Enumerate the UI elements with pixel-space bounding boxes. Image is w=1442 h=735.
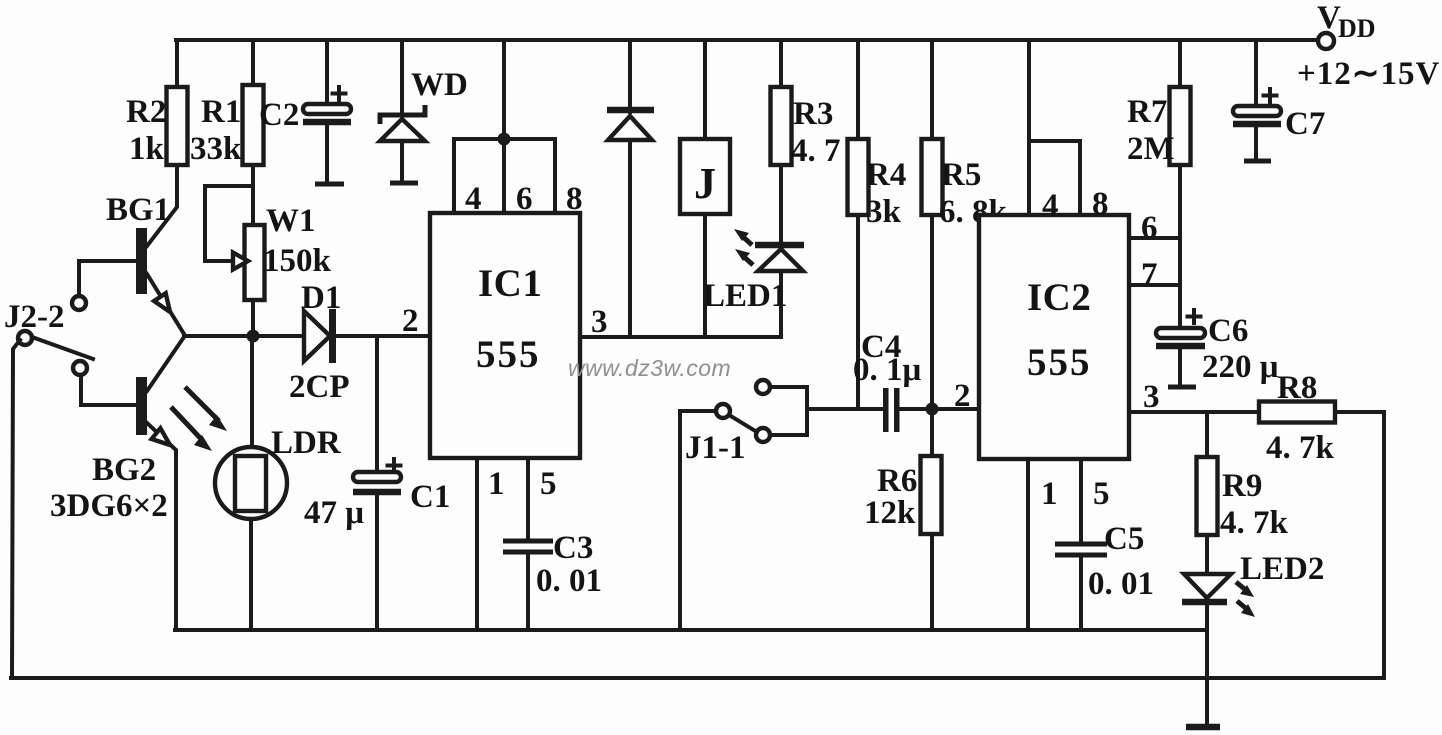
svg-text:J: J — [694, 159, 716, 208]
resistor R6 — [864, 409, 942, 630]
wire: J2-2 lower throw to BG2 base — [81, 375, 136, 405]
svg-text:WD: WD — [411, 67, 468, 103]
svg-text:R6: R6 — [877, 463, 917, 499]
wire: BG1 emitter / BG2 collector node to IC1 pin2 trigger line — [184, 334, 303, 338]
wire: IC2 pin 6 to R7/C6 bus — [1129, 236, 1180, 240]
svg-text:220 μ: 220 μ — [1202, 349, 1279, 385]
resistor R7 — [1127, 40, 1191, 328]
svg-text:C2: C2 — [259, 97, 299, 133]
svg-text:R1: R1 — [201, 94, 241, 130]
svg-text:C5: C5 — [1104, 521, 1144, 557]
svg-text:4: 4 — [465, 181, 482, 217]
wire: IC2 pin 3 output line — [1129, 410, 1259, 414]
svg-text:IC2: IC2 — [1027, 276, 1091, 319]
wire: VDD top supply rail — [176, 38, 1318, 42]
svg-text:2CP: 2CP — [289, 369, 350, 405]
svg-text:R4: R4 — [866, 157, 906, 193]
svg-text:4. 7k: 4. 7k — [1220, 505, 1289, 541]
wire: IC1 pin 3 output line — [580, 335, 781, 339]
svg-text:33k: 33k — [190, 131, 242, 167]
svg-text:R5: R5 — [941, 157, 981, 193]
node VDD terminal — [1318, 33, 1334, 49]
svg-text:2M: 2M — [1127, 131, 1175, 167]
wire: LED2 cathode to ground — [1205, 602, 1209, 727]
photoresistor LDR — [215, 336, 342, 630]
junction dot on IC1 pin 4/6/8 bus — [498, 133, 511, 146]
svg-text:J1-1: J1-1 — [685, 430, 746, 466]
svg-text:3: 3 — [1143, 379, 1160, 415]
svg-text:BG2: BG2 — [92, 452, 156, 488]
svg-text:0. 1μ: 0. 1μ — [853, 352, 922, 388]
svg-text:555: 555 — [1027, 341, 1092, 384]
svg-text:150k: 150k — [263, 243, 332, 279]
svg-text:IC1: IC1 — [478, 262, 542, 305]
svg-text:R3: R3 — [793, 96, 833, 132]
diode D1 — [289, 280, 430, 405]
svg-text:C6: C6 — [1208, 313, 1248, 349]
IC U1: 555 timer IC1 — [430, 213, 580, 458]
junction dot: W1/LDR tap on trigger line — [247, 330, 260, 343]
resistor R2 — [126, 40, 188, 167]
svg-text:4: 4 — [1042, 188, 1059, 224]
svg-text:0. 01: 0. 01 — [536, 563, 602, 599]
svg-text:5: 5 — [1093, 476, 1110, 512]
svg-text:R8: R8 — [1277, 370, 1317, 406]
svg-text:8: 8 — [566, 181, 583, 217]
svg-text:12k: 12k — [864, 495, 916, 531]
wire: J1-1 pole to internal ground rail — [678, 411, 682, 630]
svg-text:DD: DD — [1338, 14, 1376, 43]
wire: internal ground rail — [175, 628, 1207, 632]
transistor BG2 — [50, 337, 184, 630]
wire: J2-2 pole down left edge to bottom rail — [12, 340, 20, 677]
svg-text:47 μ: 47 μ — [304, 495, 364, 531]
wire: IC2 pin 4/8 bus — [1029, 141, 1080, 215]
wire: top rail drop to IC2 pins 4/8 — [1027, 40, 1031, 215]
wire: top rail drop to IC1 pins 4/6/8 — [502, 40, 506, 139]
svg-text:2: 2 — [402, 303, 419, 339]
transistor BG1 — [106, 165, 184, 334]
capacitor C2 (electrolytic) — [259, 40, 351, 184]
wire: IC1 pin 1 to ground rail — [475, 458, 479, 630]
svg-text:C7: C7 — [1285, 106, 1325, 142]
svg-text:R7: R7 — [1127, 94, 1167, 130]
wire: BG1 base to J2-2 — [79, 261, 136, 296]
LED LED1 — [703, 229, 804, 337]
svg-text:4. 7: 4. 7 — [791, 133, 841, 169]
switch J2-2 — [4, 296, 93, 375]
resistor R4 — [848, 40, 907, 409]
IC U2: 555 timer IC2 — [979, 215, 1129, 459]
svg-text:+12∼15V: +12∼15V — [1297, 56, 1440, 92]
capacitor C3 on IC1 pin 5 — [503, 458, 602, 630]
resistor R9 — [1197, 412, 1289, 574]
svg-text:C3: C3 — [553, 530, 593, 566]
svg-text:5: 5 — [540, 466, 557, 502]
svg-text:3: 3 — [591, 304, 608, 340]
capacitor C4 — [853, 329, 979, 432]
capacitor C6 (electrolytic) — [1156, 310, 1279, 387]
svg-text:6: 6 — [516, 181, 533, 217]
wire: outer bottom return rail — [11, 676, 1384, 680]
svg-text:2: 2 — [954, 378, 971, 414]
resistor R1 — [190, 40, 264, 167]
svg-text:LED1: LED1 — [703, 278, 787, 314]
svg-text:555: 555 — [476, 333, 541, 376]
wire: IC1 pin 4/6/8 bus — [454, 139, 555, 213]
switch J1-1 — [680, 380, 807, 466]
junction dot: R5/R6/C4 node — [926, 403, 939, 416]
resistor R3 — [771, 40, 841, 242]
svg-text:1k: 1k — [129, 131, 165, 167]
wire: IC2 pin 1 to ground rail — [1026, 459, 1030, 630]
relay coil J — [680, 40, 730, 337]
svg-text:D1: D1 — [301, 280, 341, 316]
svg-text:7: 7 — [1141, 257, 1158, 293]
svg-text:1: 1 — [488, 466, 505, 502]
wire: IC2 pin 7 to R7/C6 bus — [1129, 283, 1180, 287]
svg-text:6: 6 — [1141, 210, 1158, 246]
wire: J1-1 to C4 node — [807, 407, 883, 411]
svg-text:www.dz3w.com: www.dz3w.com — [568, 355, 731, 381]
capacitor C5 on IC2 pin 5 — [1055, 459, 1154, 630]
capacitor C1 (electrolytic) — [304, 336, 450, 630]
svg-text:0. 01: 0. 01 — [1088, 566, 1154, 602]
svg-text:3DG6×2: 3DG6×2 — [50, 488, 168, 524]
svg-text:1: 1 — [1041, 476, 1058, 512]
svg-text:R2: R2 — [126, 94, 166, 130]
svg-text:C1: C1 — [410, 479, 450, 515]
svg-text:3k: 3k — [866, 194, 902, 230]
svg-text:BG1: BG1 — [106, 192, 170, 228]
resistor R8 (horizontal) — [1259, 370, 1384, 466]
ground symbol — [1186, 724, 1220, 731]
svg-text:4. 7k: 4. 7k — [1266, 430, 1335, 466]
light arrows into LDR — [171, 387, 227, 451]
potentiometer W1 — [205, 165, 332, 336]
svg-text:R9: R9 — [1222, 468, 1262, 504]
svg-text:W1: W1 — [266, 203, 316, 239]
wire: right edge return to bottom rail — [1382, 412, 1386, 678]
svg-text:J2-2: J2-2 — [4, 299, 65, 335]
svg-text:8: 8 — [1092, 186, 1109, 222]
capacitor C7 (electrolytic) — [1233, 40, 1325, 161]
svg-text:LED2: LED2 — [1240, 551, 1324, 587]
resistor R5 — [922, 40, 1008, 409]
diode: relay freewheel diode — [607, 40, 654, 337]
svg-text:LDR: LDR — [271, 425, 342, 461]
zener diode WD — [380, 40, 468, 183]
LED LED2 — [1182, 551, 1324, 617]
